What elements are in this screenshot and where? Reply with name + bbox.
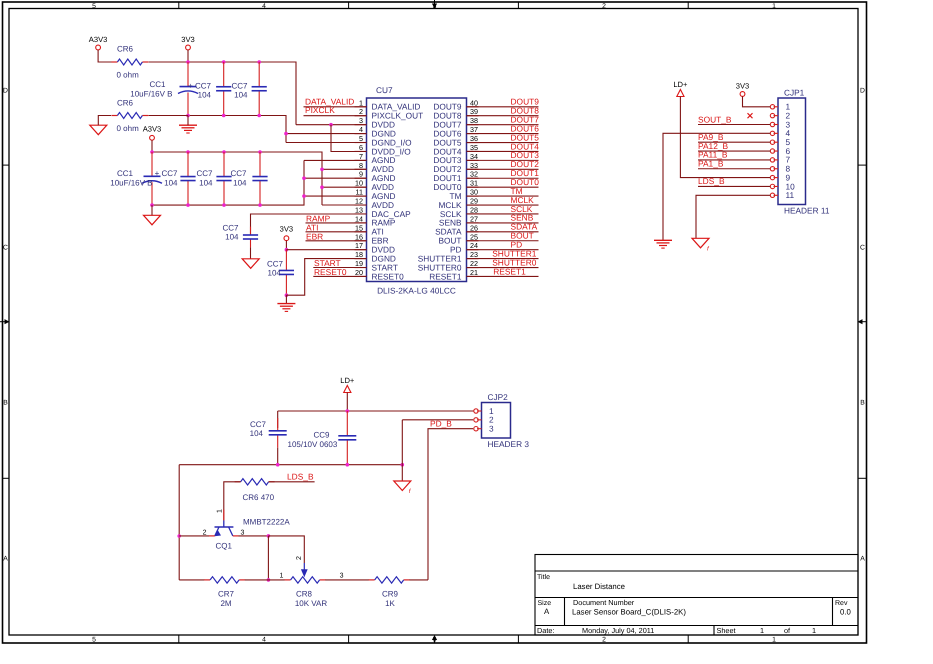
svg-text:17: 17 — [355, 241, 363, 250]
wire collector to node — [239, 535, 269, 537]
wire PA11_B to CJP1 pin7 — [698, 159, 770, 161]
svg-text:19: 19 — [355, 259, 363, 268]
CU7 pin 5 DGND_I/O stub and number — [355, 134, 413, 147]
CU7 pin 28 SCLK stub and number — [440, 205, 479, 218]
wire PD_B CJP2 pin3 — [428, 429, 473, 580]
svg-text:C: C — [3, 245, 8, 252]
net label MCLK — [511, 195, 535, 205]
wire net DOUT2 from CU7 pin 33 — [467, 168, 539, 170]
wire DVDD pin3 — [296, 124, 367, 126]
wire DGND_I/O pin5 — [286, 142, 367, 144]
svg-text:CC7: CC7 — [222, 224, 239, 233]
svg-text:2: 2 — [296, 556, 303, 560]
wire 3V3 to pin17 — [285, 241, 287, 250]
zone column ticks top — [179, 2, 688, 9]
junction mid rail CJP2 pin2/ground — [401, 463, 405, 467]
wire PIXCLK pin2 — [304, 115, 367, 117]
wire CC1 row2 to ground — [151, 205, 153, 215]
CJP2 pin 2 circle and number — [474, 415, 494, 425]
label CR9 — [382, 590, 399, 599]
label 0 ohm (bottom) — [117, 124, 140, 133]
svg-text:HEADER 11: HEADER 11 — [784, 206, 830, 216]
net label PA1_B — [698, 159, 724, 169]
CJP1 pin 8 circle and number — [770, 164, 790, 174]
svg-text:RESET0: RESET0 — [314, 267, 347, 277]
label 104 G — [268, 269, 282, 278]
wire CC7F to ground triangle — [250, 247, 252, 258]
svg-text:23: 23 — [470, 250, 478, 259]
CU7 pin 36 DOUT5 stub and number — [433, 134, 478, 147]
svg-text:31: 31 — [470, 179, 478, 188]
resistor CR7 2M — [204, 577, 245, 583]
label CR8 — [296, 590, 313, 599]
svg-text:+ CC7: + CC7 — [155, 169, 178, 178]
svg-text:36: 36 — [470, 134, 478, 143]
connector CJP2 HEADER 3 body — [482, 392, 530, 449]
CU7 pin 23 SHUTTER1 stub and number — [418, 250, 479, 263]
wire CR6 to transistor base — [224, 482, 241, 521]
wire mid rail to f-ground — [401, 465, 403, 481]
svg-text:1: 1 — [812, 626, 816, 635]
svg-text:29: 29 — [470, 197, 478, 206]
wire net DOUT7 from CU7 pin 38 — [467, 124, 539, 126]
svg-text:3: 3 — [433, 637, 437, 644]
label CC9 value — [288, 440, 338, 449]
svg-text:HEADER 3: HEADER 3 — [488, 439, 530, 449]
transistor CQ1 MMBT2222A — [209, 510, 239, 537]
svg-text:10K VAR: 10K VAR — [295, 599, 328, 608]
power symbol A3V3 top-left — [89, 35, 108, 50]
wire EBR pin16 — [306, 240, 367, 242]
svg-text:104: 104 — [250, 429, 264, 438]
svg-text:RESET0: RESET0 — [372, 271, 405, 281]
label CC9 — [314, 431, 331, 440]
svg-text:104: 104 — [164, 178, 178, 187]
svg-text:10uF/16V B: 10uF/16V B — [110, 178, 152, 187]
svg-text:1: 1 — [772, 3, 776, 10]
junction rail CC7-2 — [257, 60, 261, 64]
svg-text:28: 28 — [470, 205, 478, 214]
wire DGND pin4 — [286, 133, 367, 135]
CU7 pin 34 DOUT3 stub and number — [433, 152, 478, 165]
svg-text:2: 2 — [602, 637, 606, 644]
svg-text:PA1_B: PA1_B — [698, 159, 724, 169]
net label START — [314, 258, 341, 268]
CU7 pin 27 SENB stub and number — [439, 214, 479, 227]
net label DOUT0 — [511, 177, 540, 187]
svg-text:32: 32 — [470, 170, 478, 179]
svg-text:5: 5 — [359, 134, 363, 143]
wire net MCLK from CU7 pin 29 — [467, 204, 539, 206]
wire net SDATA from CU7 pin 26 — [467, 231, 539, 233]
net label EBR — [306, 232, 323, 242]
svg-text:CR9: CR9 — [382, 590, 399, 599]
svg-text:Monday, July 04, 2011: Monday, July 04, 2011 — [582, 626, 654, 635]
resistor CR6 (bottom) — [111, 113, 148, 119]
svg-text:CQ1: CQ1 — [216, 542, 233, 551]
svg-text:B: B — [3, 400, 8, 407]
wire CR9 to PD_B riser — [409, 579, 428, 581]
title block Date/Sheet row — [537, 626, 816, 635]
svg-text:D: D — [860, 88, 865, 95]
wire START pin19 — [313, 267, 366, 269]
wire bottom rail left segment — [179, 579, 204, 581]
wire AGND pin9 branch — [304, 177, 367, 179]
wire row2 top rail — [152, 152, 322, 205]
svg-text:2M: 2M — [220, 599, 231, 608]
svg-text:25: 25 — [470, 232, 478, 241]
wire mid ground rail — [179, 464, 402, 466]
svg-text:CC1: CC1 — [149, 80, 166, 89]
junction row1 bottom CC1 — [186, 114, 190, 118]
capacitor CC7 B (row1) — [252, 62, 267, 116]
svg-text:CC7: CC7 — [196, 169, 213, 178]
junction DVDD pin3 — [329, 123, 333, 127]
CU7 pin 12 AVDD stub and number — [355, 197, 394, 210]
wire net DOUT3 from CU7 pin 34 — [467, 159, 539, 161]
svg-text:26: 26 — [470, 223, 478, 232]
CU7 pin 33 DOUT2 stub and number — [433, 161, 478, 174]
svg-text:CC7: CC7 — [267, 260, 284, 269]
junction row2 bottom CC1 — [150, 203, 154, 207]
ground signal row1 — [179, 125, 197, 133]
CU7 pin 17 DVDD stub and number — [355, 241, 396, 254]
capacitor CC7 D (row2) — [216, 152, 231, 205]
op-amp U? -- IC CU7 DLIS-2KA-LG 40LCC body — [367, 85, 467, 296]
CU7 pin 11 AGND stub and number — [355, 188, 396, 201]
wire CJP2 pin2 vertical — [401, 420, 403, 465]
frame center arrow left — [0, 319, 10, 324]
junction row1 bottom CC7A — [222, 114, 226, 118]
CU7 pin 2 PIXCLK_OUT stub and number — [355, 107, 424, 120]
wire net TM from CU7 pin 30 — [467, 195, 539, 197]
junction AGND pin11 — [302, 194, 306, 198]
zone column ticks bottom — [179, 635, 688, 643]
net label DOUT1 — [511, 168, 540, 178]
svg-text:2: 2 — [203, 529, 207, 536]
net label BOUT — [511, 231, 534, 241]
junction bottom rail CR8 left — [267, 578, 271, 582]
wire LD+ top rail — [278, 410, 474, 412]
CJP1 pin 4 circle and number — [770, 128, 790, 138]
label 104 E (row2) — [233, 178, 247, 187]
junction mid rail CC9 — [346, 463, 350, 467]
ground triangle DAC_CAP — [242, 259, 259, 269]
net label DOUT2 — [511, 159, 540, 169]
svg-text:104: 104 — [234, 91, 248, 100]
label 104 D (row2) — [199, 178, 213, 187]
CJP2 pin 1 circle and number — [474, 406, 494, 416]
net label SCLK — [511, 204, 533, 214]
wire base row left — [179, 535, 209, 537]
junction rail CC7-1 — [222, 60, 226, 64]
no-connect X on CJP1 pin2 — [748, 113, 753, 118]
svg-text:1K: 1K — [385, 599, 395, 608]
wire CR8 to CR9 — [325, 579, 369, 581]
CU7 pin 15 ATI stub and number — [355, 223, 384, 236]
svg-text:A3V3: A3V3 — [143, 124, 162, 133]
net label DOUT7 — [511, 114, 540, 124]
svg-text:+ CC7: + CC7 — [188, 82, 211, 91]
svg-text:34: 34 — [470, 152, 478, 161]
junction CC7G bottom — [285, 293, 289, 297]
wire CC7G to ground — [285, 295, 287, 303]
CJP1 pin 2 circle and number — [770, 110, 790, 120]
net label DOUT6 — [511, 123, 540, 133]
svg-text:3: 3 — [359, 116, 363, 125]
svg-text:16: 16 — [355, 232, 363, 241]
net label DOUT5 — [511, 132, 540, 142]
junction DVDD pin17 — [285, 248, 289, 252]
svg-text:Laser Sensor Board_C(DLIS-2K): Laser Sensor Board_C(DLIS-2K) — [572, 608, 686, 617]
svg-text:Sheet: Sheet — [717, 626, 736, 635]
junction row2 bottom c3 — [222, 203, 226, 207]
CU7 pin 9 AGND stub and number — [355, 170, 396, 183]
CJP1 pin 3 circle and number — [770, 119, 790, 129]
wire DAC_CAP pin13 — [251, 214, 367, 235]
svg-text:RESET1: RESET1 — [429, 271, 462, 281]
label 0 ohm (top) — [117, 71, 140, 80]
svg-text:0 ohm: 0 ohm — [117, 71, 140, 80]
wire CC1 to ground row1 — [187, 116, 189, 126]
zone column numbers top — [92, 3, 776, 10]
label 104 A (row1) — [198, 91, 212, 100]
svg-text:3: 3 — [241, 529, 245, 536]
svg-text:MMBT2222A: MMBT2222A — [243, 518, 290, 527]
wire DVDD pin17 horizontal — [286, 249, 366, 251]
wire net DOUT9 from CU7 pin 40 — [467, 106, 539, 108]
wire CJP2 pin2 horizontal — [402, 419, 473, 421]
svg-text:35: 35 — [470, 143, 478, 152]
svg-text:10: 10 — [355, 179, 363, 188]
capacitor CC7 H (bottom) — [269, 418, 287, 448]
resistor CR6 470 — [235, 479, 275, 485]
CR8 pin 3 number — [340, 573, 344, 580]
junction collector node — [267, 534, 271, 538]
frame center arrow bottom — [432, 635, 437, 643]
label CC1 value (row2) — [110, 178, 152, 187]
svg-text:104: 104 — [225, 233, 239, 242]
wire CC7H drop — [277, 411, 279, 428]
CU7 pin 19 START stub and number — [355, 259, 398, 272]
wire A3V3 to CR6 — [98, 50, 111, 62]
svg-text:B: B — [860, 400, 865, 407]
zone column numbers bottom — [92, 637, 776, 644]
svg-text:CU7: CU7 — [376, 85, 393, 95]
CQ1 pin 1 number — [217, 509, 224, 513]
power symbol LD+ at CJP1 — [673, 80, 688, 97]
svg-text:10uF/16V B: 10uF/16V B — [130, 89, 172, 98]
svg-text:11: 11 — [786, 190, 795, 200]
wire net DOUT0 from CU7 pin 31 — [467, 186, 539, 188]
CU7 pin 7 AGND stub and number — [355, 152, 396, 165]
CU7 pin 18 DGND stub and number — [355, 250, 396, 263]
CJP1 pin 6 circle and number — [770, 146, 790, 156]
svg-text:30: 30 — [470, 188, 478, 197]
wire PA9_B to CJP1 pin5 — [698, 141, 770, 143]
wire 3V3 rail top — [149, 62, 296, 125]
svg-text:CR7: CR7 — [218, 590, 235, 599]
net label DOUT9 — [511, 97, 540, 107]
CU7 pin 6 DVDD_I/O stub and number — [355, 143, 412, 156]
wire AVDD pin10 branch — [322, 186, 367, 188]
junction DGND pin4 — [284, 132, 288, 136]
potentiometer CR8 wiper arrow — [301, 563, 308, 577]
CJP1 pin 5 circle and number — [770, 137, 790, 147]
ground triangle CJP1 — [692, 238, 710, 252]
CU7 pin 1 DATA_VALID stub and number — [355, 98, 421, 111]
wire AGND bus pins 7-9-11 — [304, 159, 367, 161]
wire CR7 to CR8 — [245, 579, 285, 581]
svg-text:5: 5 — [92, 3, 96, 10]
junction row2 top c2 — [186, 150, 190, 154]
svg-text:40: 40 — [470, 98, 478, 107]
svg-text:3V3: 3V3 — [181, 35, 195, 44]
svg-text:CC7: CC7 — [231, 82, 248, 91]
wire collector node to wiper — [268, 536, 304, 563]
svg-text:39: 39 — [470, 107, 478, 116]
svg-text:4: 4 — [359, 125, 363, 134]
junction mid rail CC7H — [276, 463, 280, 467]
svg-text:LDS_B: LDS_B — [287, 472, 314, 482]
capacitor CC7 A (row1) — [216, 62, 231, 116]
junction row2 top CC1 — [150, 150, 154, 154]
wire RESET0 pin20 — [313, 275, 366, 277]
power symbol 3V3 at DVDD pin17 — [280, 225, 294, 241]
svg-text:CR6: CR6 — [117, 99, 134, 108]
junction AGND pin9 — [302, 176, 306, 180]
svg-text:104: 104 — [233, 178, 247, 187]
label CR6 (bottom) — [117, 99, 134, 108]
wire net DOUT4 from CU7 pin 35 — [467, 150, 539, 152]
wire ground to CR6 bottom — [98, 116, 111, 126]
wire left riser from mid rail — [178, 465, 180, 580]
svg-text:0 ohm: 0 ohm — [117, 124, 140, 133]
CU7 pin 24 PD stub and number — [450, 241, 479, 254]
CU7 pin 30 TM stub and number — [450, 188, 479, 201]
svg-text:4: 4 — [262, 637, 266, 644]
net label PD_B — [430, 419, 452, 429]
svg-text:A3V3: A3V3 — [89, 35, 108, 44]
net label SDATA — [511, 222, 538, 232]
CU7 pin 32 DOUT1 stub and number — [433, 170, 478, 183]
svg-text:7: 7 — [359, 152, 363, 161]
svg-text:CC7: CC7 — [250, 420, 267, 429]
svg-text:3V3: 3V3 — [280, 225, 294, 234]
zone row ticks right — [858, 165, 867, 478]
svg-text:38: 38 — [470, 116, 478, 125]
net label SOUT_B — [698, 114, 732, 124]
label CC1 (row1) — [149, 80, 166, 89]
junction row2 bottom c4 — [258, 203, 262, 207]
net label RAMP — [306, 214, 331, 224]
title block outline — [535, 555, 858, 636]
svg-text:LD+: LD+ — [340, 376, 355, 385]
CU7 pin 3 DVDD stub and number — [355, 116, 396, 129]
svg-text:14: 14 — [355, 214, 363, 223]
net label SHUTTER0 — [492, 257, 537, 267]
svg-text:104: 104 — [198, 91, 212, 100]
svg-text:105/10V 0603: 105/10V 0603 — [288, 440, 338, 449]
junction LD+ rail — [346, 409, 350, 413]
wire collector node down to bottom rail — [267, 536, 269, 580]
wire row1 bottom rail — [188, 116, 286, 143]
svg-text:12: 12 — [355, 197, 363, 206]
junction left riser base row — [177, 534, 181, 538]
CJP1 pin 11 circle and number — [770, 190, 794, 200]
wire net RESET1 from CU7 pin 21 — [467, 275, 539, 277]
svg-text:37: 37 — [470, 125, 478, 134]
capacitor CC9 — [338, 411, 356, 465]
title block Size/Document/Rev row — [538, 598, 852, 617]
CJP1 pin 10 circle and number — [770, 181, 795, 191]
CU7 pin 38 DOUT7 stub and number — [433, 116, 478, 129]
svg-text:4: 4 — [262, 3, 266, 10]
CU7 pin 31 DOUT0 stub and number — [433, 179, 478, 192]
title block Title row — [537, 573, 625, 591]
svg-text:CC9: CC9 — [314, 431, 331, 440]
CU7 pin 13 DAC_CAP stub and number — [355, 205, 412, 218]
svg-text:PD_B: PD_B — [430, 419, 452, 429]
CU7 pin 16 EBR stub and number — [355, 232, 389, 245]
label CR6 (top) — [117, 45, 134, 54]
svg-text:C: C — [860, 245, 865, 252]
wire net SCLK from CU7 pin 28 — [467, 213, 539, 215]
net label PD — [511, 239, 523, 249]
svg-text:18: 18 — [355, 250, 363, 259]
label CC1 (row2) — [117, 169, 134, 178]
CU7 pin 20 RESET0 stub and number — [355, 268, 405, 281]
svg-text:A: A — [544, 607, 550, 616]
net label SHUTTER1 — [492, 248, 537, 258]
label 104 C (row2) — [164, 178, 178, 187]
wire DGND pin18 route — [286, 259, 366, 296]
svg-text:1: 1 — [772, 637, 776, 644]
wire net DOUT6 from CU7 pin 37 — [467, 133, 539, 135]
svg-text:104: 104 — [199, 178, 213, 187]
svg-text:CR6 470: CR6 470 — [243, 493, 275, 502]
CU7 pin 22 SHUTTER0 stub and number — [418, 259, 479, 272]
net label ATI — [306, 223, 318, 233]
CQ1 pin 2 number — [203, 529, 207, 536]
wire CR6 bottom to CC1 — [149, 115, 188, 117]
svg-text:1: 1 — [280, 573, 284, 580]
net label SENB — [511, 213, 534, 223]
wire RAMP pin14 — [306, 222, 367, 224]
CR8 pin 1 number — [280, 573, 284, 580]
svg-text:21: 21 — [470, 268, 478, 277]
CU7 pin 26 SDATA stub and number — [435, 223, 478, 236]
net label DOUT4 — [511, 141, 540, 151]
wire net SHUTTER1 from CU7 pin 23 — [467, 258, 539, 260]
CU7 pin 14 RAMP stub and number — [355, 214, 396, 227]
CU7 pin 29 MCLK stub and number — [438, 197, 478, 210]
wire ATI pin15 — [306, 231, 367, 233]
wire LD+ to CJP1 pin9 — [680, 97, 770, 178]
svg-text:3: 3 — [340, 573, 344, 580]
wire LDS_B to CJP1 pin10 — [698, 185, 770, 187]
CU7 pin 39 DOUT8 stub and number — [433, 107, 478, 120]
wire net BOUT from CU7 pin 25 — [467, 240, 539, 242]
wire LDS_B stub — [269, 481, 315, 483]
wire net PD from CU7 pin 24 — [467, 249, 539, 251]
CJP1 pin 7 circle and number — [770, 155, 790, 165]
svg-text:3V3: 3V3 — [736, 82, 750, 91]
label CC7 D (row2) — [196, 169, 213, 178]
frame center arrow right — [858, 319, 868, 324]
label 104 H — [250, 429, 264, 438]
svg-text:22: 22 — [470, 259, 478, 268]
